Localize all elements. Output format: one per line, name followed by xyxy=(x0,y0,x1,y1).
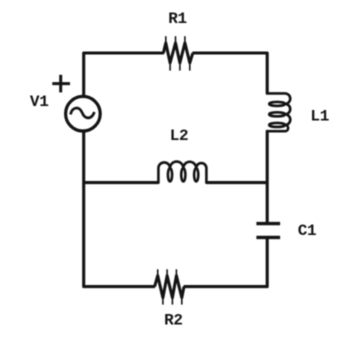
resistor R1 apex needle up 1 xyxy=(165,36,167,44)
V1 plus sign horizontal stroke xyxy=(52,82,70,85)
inductor L2 loop 1 xyxy=(168,168,172,181)
V1 plus sign vertical stroke xyxy=(59,75,62,93)
inductor L2 loop 2 xyxy=(181,168,185,181)
voltage source V1 circle xyxy=(66,96,101,131)
svg-text:R2: R2 xyxy=(164,312,183,330)
svg-text:R1: R1 xyxy=(168,10,187,28)
resistor R2 xyxy=(155,276,184,298)
inductor L2 loop 3 xyxy=(194,168,198,181)
inductor L2 risers and humps xyxy=(158,162,206,184)
svg-text:L2: L2 xyxy=(170,127,189,145)
capacitor C1 bottom plate xyxy=(256,236,280,239)
wire middle-left: left rail to L2 riser xyxy=(84,181,159,184)
resistor R2 apex needle down 1 xyxy=(181,297,183,305)
resistor R2 apex needle up 2 xyxy=(175,269,177,276)
V1 sine wave xyxy=(71,108,95,118)
resistor R2 apex needle up 6 xyxy=(157,269,159,276)
wire top-left: from V1 top up, right along top rail to R1 xyxy=(84,53,164,96)
wire right-middle: L1 to C1 top plate xyxy=(266,131,269,223)
resistor R1 apex needle up 5 xyxy=(184,36,186,44)
capacitor C1 top plate xyxy=(256,222,280,225)
svg-text:V1: V1 xyxy=(30,93,49,111)
inductor L1 loop 3 xyxy=(269,123,285,127)
wire right-lower: C1 to bottom-right corner, left to R2 xyxy=(184,239,268,287)
resistor R1 apex needle up 3 xyxy=(175,36,177,44)
resistor R2 apex needle down 3 xyxy=(171,297,173,305)
svg-text:L1: L1 xyxy=(310,107,329,125)
resistor R2 apex needle up 4 xyxy=(166,269,168,276)
resistor R2 apex needle down 5 xyxy=(162,297,164,305)
resistor R1 xyxy=(163,43,192,63)
inductor L1 hooks and humps xyxy=(266,93,290,131)
wire middle-right: L2 riser to right rail xyxy=(206,181,267,184)
svg-text:C1: C1 xyxy=(298,222,317,240)
wire bottom-left: R2 to bottom-left corner, up to V1 bottom xyxy=(84,131,155,286)
resistor R1 apex needle down 2 xyxy=(169,62,171,71)
inductor L1 loop 2 xyxy=(269,112,285,116)
resistor R1 apex needle down 4 xyxy=(179,62,181,71)
resistor R1 apex needle down 6 xyxy=(189,62,191,71)
wire top-right: from R1 to top-right corner, down to L1 hook xyxy=(192,53,267,94)
inductor L1 loop 1 xyxy=(269,102,285,106)
